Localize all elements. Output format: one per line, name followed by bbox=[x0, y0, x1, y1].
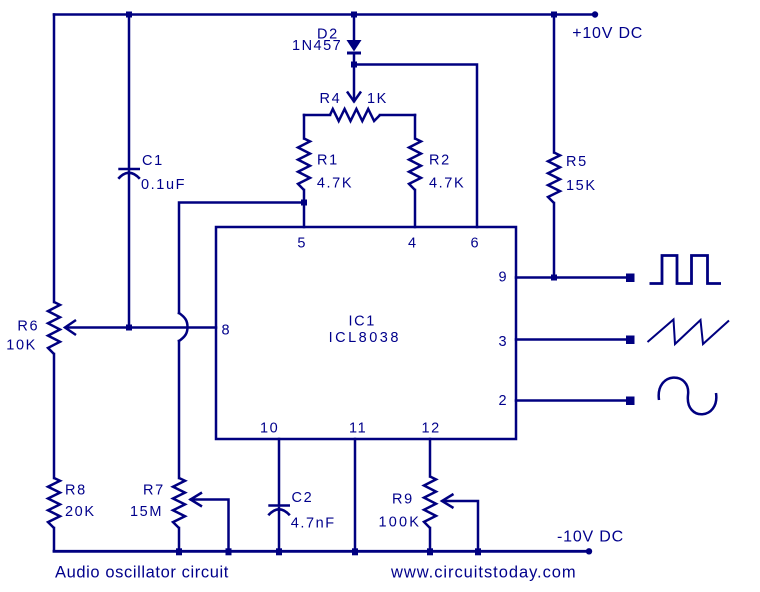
svg-text:0.1uF: 0.1uF bbox=[141, 177, 186, 193]
svg-text:15M: 15M bbox=[130, 504, 163, 520]
svg-text:10K: 10K bbox=[6, 338, 37, 354]
svg-text:C1: C1 bbox=[142, 153, 164, 169]
svg-text:R9: R9 bbox=[392, 492, 414, 508]
svg-text:9: 9 bbox=[499, 270, 509, 286]
svg-text:ICL8038: ICL8038 bbox=[329, 330, 401, 346]
svg-text:20K: 20K bbox=[65, 504, 96, 520]
svg-text:R7: R7 bbox=[143, 483, 165, 499]
svg-text:6: 6 bbox=[471, 235, 481, 251]
svg-text:R1: R1 bbox=[317, 153, 339, 169]
svg-text:8: 8 bbox=[222, 322, 232, 338]
svg-text:4.7nF: 4.7nF bbox=[291, 516, 336, 532]
svg-text:3: 3 bbox=[499, 334, 509, 350]
svg-text:R6: R6 bbox=[17, 319, 39, 335]
svg-text:-10V DC: -10V DC bbox=[557, 528, 624, 545]
svg-text:C2: C2 bbox=[292, 490, 314, 506]
svg-text:R5: R5 bbox=[566, 154, 588, 170]
svg-text:12: 12 bbox=[422, 421, 441, 437]
svg-text:10: 10 bbox=[260, 421, 279, 437]
svg-text:R4: R4 bbox=[320, 91, 342, 107]
svg-text:11: 11 bbox=[349, 421, 367, 437]
svg-text:2: 2 bbox=[499, 393, 509, 409]
svg-text:4: 4 bbox=[408, 235, 418, 251]
svg-text:Audio oscillator circuit: Audio oscillator circuit bbox=[55, 563, 229, 581]
svg-text:15K: 15K bbox=[566, 178, 597, 194]
svg-text:www.circuitstoday.com: www.circuitstoday.com bbox=[390, 563, 577, 581]
svg-text:100K: 100K bbox=[379, 515, 422, 531]
svg-text:1N457: 1N457 bbox=[292, 38, 342, 54]
svg-text:5: 5 bbox=[297, 235, 307, 251]
svg-text:4.7K: 4.7K bbox=[429, 175, 465, 191]
svg-text:R8: R8 bbox=[65, 483, 87, 499]
svg-text:1K: 1K bbox=[367, 91, 388, 107]
svg-text:+10V DC: +10V DC bbox=[572, 25, 643, 42]
svg-text:4.7K: 4.7K bbox=[317, 175, 353, 191]
svg-text:IC1: IC1 bbox=[349, 314, 376, 330]
svg-text:R2: R2 bbox=[429, 153, 451, 169]
